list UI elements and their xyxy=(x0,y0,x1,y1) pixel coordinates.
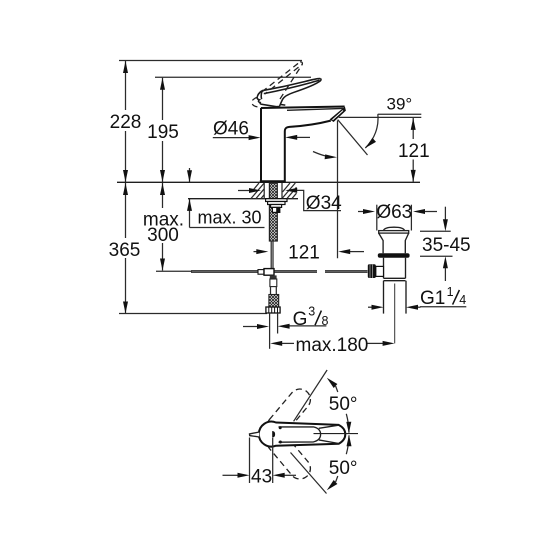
hose crimp below clamp xyxy=(270,275,277,279)
label max.30 with underline xyxy=(190,227,265,229)
svg-text:121: 121 xyxy=(398,141,430,162)
dim 43: right arrow xyxy=(285,474,297,476)
dim 195 arrow up xyxy=(160,78,165,90)
svg-text:Ø63: Ø63 xyxy=(376,202,412,223)
spout aerator gap line xyxy=(333,111,344,120)
handle solid: knob crease xyxy=(260,91,263,99)
ref line top of solid handle (195 datum) xyxy=(155,76,311,78)
drain: knob connector xyxy=(376,266,384,276)
top view: arc lower segment xyxy=(346,435,349,454)
drain: Ø63 dim xyxy=(358,211,363,213)
dim 35-45 xyxy=(420,230,451,232)
svg-text:300: 300 xyxy=(147,225,179,246)
top view: lower 50 deg diagonal xyxy=(291,453,327,494)
top view: dashed handle rotated down 50deg xyxy=(263,427,315,483)
dim max.180 xyxy=(280,342,294,344)
dim G3/8 arrows at pipe xyxy=(243,326,258,328)
pop-up rod horizontal (right segment) xyxy=(325,270,368,272)
dim 195 vertical line xyxy=(162,78,164,120)
top view: taper lines to tip xyxy=(319,425,339,428)
ref line for max.300 (rod level) xyxy=(156,270,192,272)
countertop hole left wall xyxy=(263,183,265,199)
svg-text:max. 30: max. 30 xyxy=(198,208,262,228)
drain: union lines xyxy=(384,277,406,279)
dim 365 arrow down xyxy=(123,302,128,314)
svg-text:G1: G1 xyxy=(420,288,445,309)
top view: upper 50 label leader and arrow xyxy=(336,386,338,392)
faucet shank (threaded, cross-hatched) xyxy=(269,183,277,241)
pop-up rod clamp xyxy=(258,270,264,275)
39 deg arc arrowhead xyxy=(365,138,376,148)
ref line bottom of hoses (365 datum) xyxy=(119,313,267,315)
dim 43: extension lines xyxy=(249,438,251,484)
countertop hatch left xyxy=(251,183,264,199)
faucet body/spout top edge xyxy=(261,107,345,109)
dim 121 horizontal: right arrow xyxy=(350,251,365,253)
dim max.300 arrow down xyxy=(160,259,165,271)
svg-text:43: 43 xyxy=(251,466,272,487)
dim G1 1/4 xyxy=(368,306,372,308)
top view: left tab xyxy=(250,432,260,437)
top view: dashed handle rotated up 50deg xyxy=(263,385,315,441)
spout top inner line xyxy=(287,108,343,110)
spout reach extension line xyxy=(337,121,339,259)
svg-text:Ø34: Ø34 xyxy=(306,193,342,214)
pop-up rod horizontal (left segment) xyxy=(191,270,317,272)
small flow arrow under spout xyxy=(313,152,327,157)
dim max.30 arrow up (below countertop) xyxy=(189,199,191,228)
drain: body below seal xyxy=(383,258,385,279)
water stream line xyxy=(338,120,368,155)
handle solid: blade inner line xyxy=(264,80,320,93)
top view: screw dots xyxy=(279,426,282,429)
top view: arc lower stub arrow (up) xyxy=(347,435,352,447)
faucet base dark line xyxy=(260,180,285,182)
svg-text:1: 1 xyxy=(447,285,454,299)
top view: upper 50 deg diagonal xyxy=(294,370,328,421)
dim Ø34 leader: right arrow and elbow xyxy=(297,190,341,210)
handle solid: tip and underside xyxy=(280,79,322,107)
dim 121 vertical line xyxy=(412,118,414,139)
dim max.30 arrow down (above countertop) xyxy=(189,168,191,182)
handle raised (dashed) line B xyxy=(280,64,302,99)
handle raised (dashed) tip xyxy=(300,62,302,64)
top view: arc upper segment xyxy=(346,414,349,433)
braided hose section xyxy=(269,295,279,308)
dim Ø46 right arrow xyxy=(297,136,310,138)
dim 365 arrow up xyxy=(123,183,128,195)
top view: handle inner panel xyxy=(279,427,321,442)
svg-text:50°: 50° xyxy=(329,394,358,415)
svg-text:3: 3 xyxy=(308,305,315,319)
hose end nut G3/8 xyxy=(266,307,280,313)
dim max.300 vertical line xyxy=(162,183,164,208)
drain: centerline xyxy=(394,284,396,344)
countertop hatch right xyxy=(282,183,297,199)
handle base ledge xyxy=(281,104,286,107)
drain: knurled knob xyxy=(368,264,376,278)
handle raised (dashed) line A xyxy=(262,62,300,92)
countertop top line xyxy=(117,181,420,183)
dim max.300 arrow up xyxy=(160,183,165,195)
dim 228 arrow down xyxy=(123,170,128,182)
svg-text:35-45: 35-45 xyxy=(422,235,471,256)
svg-text:365: 365 xyxy=(109,240,141,261)
svg-text:max.180: max.180 xyxy=(296,335,369,356)
top view: dark slot at pivot xyxy=(272,431,275,438)
ref line top of raised handle (228 datum) xyxy=(119,60,302,62)
mounting washer xyxy=(266,199,287,202)
39 deg label underline xyxy=(378,113,422,115)
hose pipe end (G3/8 thread) xyxy=(269,313,271,349)
dim 43: left arrow xyxy=(223,474,239,476)
spout outlet ref line (top of 121) xyxy=(339,116,422,118)
dim 121 horizontal: left arrow xyxy=(254,251,258,253)
countertop bottom line xyxy=(188,198,298,200)
handle raised (dashed) knob arc xyxy=(252,97,259,107)
dim 228 vertical line xyxy=(125,61,127,110)
mounting nut xyxy=(268,202,285,205)
dim Ø34 leader: left arrow xyxy=(238,190,249,192)
top view: handle outer outline xyxy=(259,422,345,447)
svg-text:195: 195 xyxy=(147,122,179,143)
svg-text:228: 228 xyxy=(110,112,142,133)
svg-text:4: 4 xyxy=(459,293,466,307)
mounting tube end xyxy=(272,207,279,212)
svg-text:50°: 50° xyxy=(329,458,358,479)
svg-text:Ø46: Ø46 xyxy=(213,118,249,139)
39 deg arc xyxy=(365,114,378,148)
spout aerator face (dark) xyxy=(330,107,346,122)
mounting nut step xyxy=(271,205,282,208)
handle solid: blade top edge xyxy=(262,79,320,91)
spout underside curve into column xyxy=(285,121,331,183)
drain: rubber seal (dark) xyxy=(378,253,410,258)
top view: arc upper stub arrow (down) xyxy=(346,422,351,434)
svg-text:121: 121 xyxy=(288,242,320,263)
pop-up pull rod below shank xyxy=(270,241,272,269)
top view: centerline xyxy=(314,433,359,435)
countertop hole right wall xyxy=(281,183,283,199)
svg-text:8: 8 xyxy=(322,314,329,328)
dim 365 vertical line xyxy=(125,183,127,238)
top view: lower 50 label leader and arrow xyxy=(336,476,338,482)
dim 228 arrow up xyxy=(123,61,128,73)
faucet body left edge xyxy=(260,108,262,182)
drain: pop-up plug cap xyxy=(384,227,405,230)
drain: tailpipe xyxy=(383,281,385,314)
handle raised (dashed) inner line xyxy=(265,64,303,94)
drain: flange xyxy=(379,231,409,234)
svg-text:G: G xyxy=(293,309,308,330)
svg-text:39°: 39° xyxy=(387,95,413,114)
handle solid: front knob xyxy=(257,91,279,107)
dim 195 arrow down xyxy=(160,170,165,182)
